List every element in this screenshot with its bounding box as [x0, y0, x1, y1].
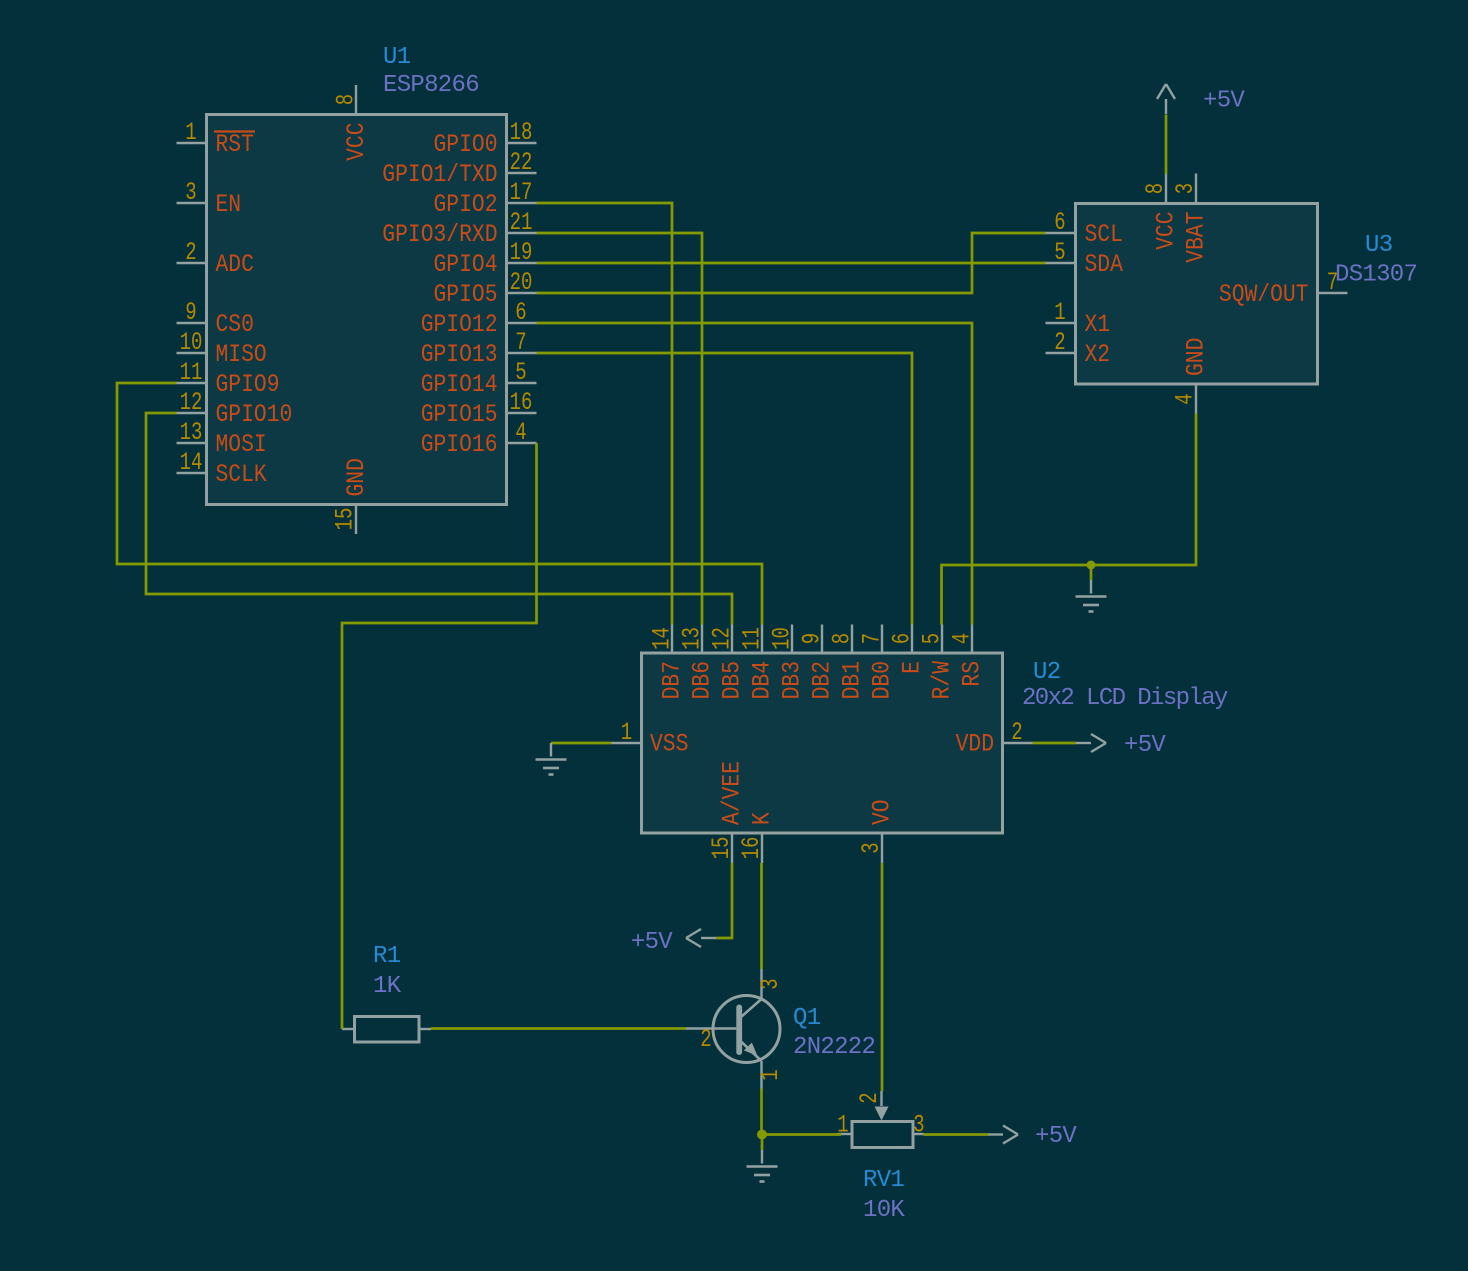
U1 pin 4 GPIO16	[421, 418, 537, 459]
svg-text:GPIO4: GPIO4	[434, 250, 498, 279]
+5V power symbol at U2 VDD	[1076, 734, 1106, 752]
svg-text:MISO: MISO	[216, 340, 267, 369]
U1 pin 22 GPIO1/TXD	[382, 148, 536, 189]
U1 pin 13 MOSI	[177, 418, 267, 459]
svg-text:GPIO14: GPIO14	[421, 370, 498, 399]
svg-text:9: 9	[798, 633, 827, 644]
U1 pin 3 EN	[177, 178, 242, 219]
U2 pin 10 DB3	[768, 625, 807, 700]
+5V power symbol at RV1 pin 3	[988, 1126, 1018, 1144]
wire R1 to Q1 base	[431, 1027, 686, 1030]
svg-text:6: 6	[1054, 208, 1065, 237]
svg-text:U1: U1	[383, 44, 411, 71]
U1 pin 19 GPIO4	[434, 238, 537, 279]
U1 pin 7 GPIO13	[421, 328, 537, 369]
wire Q1 emitter to junction	[760, 1089, 763, 1135]
svg-text:9: 9	[185, 298, 196, 327]
svg-text:1: 1	[185, 118, 196, 147]
wire junction to RV1 pin 1	[762, 1133, 841, 1136]
ground at U2 VSS	[536, 743, 567, 775]
wire VO to RV1 wiper	[881, 863, 884, 1091]
svg-text:12: 12	[180, 388, 203, 417]
svg-text:16: 16	[510, 388, 533, 417]
wire VDD to +5V	[1033, 742, 1077, 745]
wire U3 GND to R/W (ground net)	[942, 414, 1197, 625]
U2 pin 1 VSS	[612, 718, 689, 759]
svg-text:15: 15	[331, 508, 360, 531]
svg-text:X1: X1	[1085, 310, 1111, 339]
svg-text:R1: R1	[373, 943, 401, 970]
svg-text:8: 8	[1141, 183, 1170, 194]
svg-text:DB0: DB0	[868, 661, 897, 699]
svg-text:4: 4	[515, 418, 526, 447]
svg-text:1K: 1K	[373, 973, 402, 1000]
wire A/VEE to +5V	[716, 863, 732, 938]
U1 pin 1 RST	[177, 118, 256, 159]
U3 pin 6 SCL	[1046, 208, 1123, 249]
svg-text:1: 1	[621, 718, 632, 747]
svg-text:GPIO13: GPIO13	[421, 340, 498, 369]
svg-text:21: 21	[510, 208, 533, 237]
svg-text:17: 17	[510, 178, 533, 207]
wire GPIO5 to SCL	[537, 233, 1046, 293]
wire junction to ground	[761, 1135, 764, 1151]
svg-text:SCL: SCL	[1085, 220, 1123, 249]
U1 pin 16 GPIO15	[421, 388, 537, 429]
svg-text:4: 4	[1171, 393, 1200, 404]
svg-text:4: 4	[948, 633, 977, 644]
U1 pin 12 GPIO10	[177, 388, 293, 429]
svg-text:15: 15	[707, 837, 736, 860]
svg-text:8: 8	[332, 94, 361, 105]
U1 pin 20 GPIO5	[434, 268, 537, 309]
potentiometer RV1 body	[838, 1091, 924, 1148]
svg-text:14: 14	[648, 627, 677, 650]
svg-text:VO: VO	[868, 799, 897, 825]
svg-text:GPIO1/TXD: GPIO1/TXD	[382, 160, 497, 189]
svg-text:5: 5	[1054, 238, 1065, 267]
junction Q1 emitter / RV1 / ground	[757, 1130, 767, 1140]
U2 pin 16 K	[737, 812, 777, 863]
U2 pin 7 DB0	[858, 625, 897, 700]
svg-text:+5V: +5V	[1203, 88, 1245, 115]
svg-text:VSS: VSS	[650, 730, 688, 759]
U1 pin 14 SCLK	[177, 448, 267, 489]
svg-text:GPIO2: GPIO2	[434, 190, 498, 219]
+5V power symbol at U2 A/VEE	[686, 929, 716, 947]
U1 pin 15 GND	[331, 458, 372, 534]
svg-text:EN: EN	[216, 190, 242, 219]
svg-text:6: 6	[515, 298, 526, 327]
U1 pin 10 MISO	[177, 328, 267, 369]
IC U3 DS1307 body	[1076, 204, 1318, 385]
IC U2 20x2 LCD Display body	[642, 653, 1003, 833]
svg-text:13: 13	[180, 418, 203, 447]
svg-text:11: 11	[738, 627, 767, 650]
svg-text:SDA: SDA	[1085, 250, 1123, 279]
svg-text:19: 19	[510, 238, 533, 267]
transistor Q1 2N2222	[686, 969, 780, 1089]
svg-text:+5V: +5V	[1124, 732, 1166, 759]
svg-text:1: 1	[1054, 298, 1065, 327]
svg-text:DS1307: DS1307	[1335, 262, 1417, 289]
svg-text:12: 12	[708, 627, 737, 650]
svg-text:+5V: +5V	[1035, 1123, 1077, 1150]
wire ground junction stub	[1090, 565, 1093, 580]
svg-text:3: 3	[913, 1111, 924, 1140]
IC U1 ESP8266 body	[207, 115, 507, 505]
svg-text:VDD: VDD	[956, 730, 994, 759]
U2 pin 11 DB4	[738, 625, 777, 700]
svg-text:7: 7	[515, 328, 526, 357]
svg-text:3: 3	[185, 178, 196, 207]
svg-text:DB4: DB4	[748, 661, 777, 699]
U3 pin 7 SQW/OUT	[1219, 268, 1348, 309]
U3 pin 1 X1	[1046, 298, 1111, 339]
U2 pin 5 R/W	[918, 625, 957, 700]
svg-text:A/VEE: A/VEE	[718, 761, 747, 825]
svg-text:8: 8	[828, 633, 857, 644]
svg-text:X2: X2	[1085, 340, 1111, 369]
svg-text:GPIO9: GPIO9	[216, 370, 280, 399]
svg-text:2: 2	[1011, 718, 1022, 747]
svg-text:DB1: DB1	[838, 661, 867, 699]
svg-text:DB3: DB3	[778, 661, 807, 699]
wire GPIO3/RXD to DB6	[537, 233, 703, 625]
svg-text:6: 6	[888, 633, 917, 644]
svg-text:DB2: DB2	[808, 661, 837, 699]
svg-text:RST: RST	[216, 130, 254, 159]
svg-text:CS0: CS0	[216, 310, 254, 339]
U2 pin 9 DB2	[798, 625, 837, 700]
svg-text:RV1: RV1	[863, 1167, 904, 1194]
wire GPIO4 to SDA	[537, 262, 1046, 265]
svg-text:+5V: +5V	[631, 929, 673, 956]
svg-text:U3: U3	[1365, 232, 1392, 259]
svg-text:GPIO0: GPIO0	[434, 130, 498, 159]
+5V power symbol at U3 VCC	[1157, 84, 1175, 114]
wire GPIO2 to DB7	[537, 203, 673, 625]
svg-text:GND: GND	[342, 458, 371, 496]
svg-text:5: 5	[515, 358, 526, 387]
svg-text:DB7: DB7	[658, 661, 687, 699]
svg-text:5: 5	[918, 633, 947, 644]
svg-text:GPIO3/RXD: GPIO3/RXD	[382, 220, 497, 249]
U2 pin 15 A/VEE	[707, 761, 747, 863]
wire GPIO10 to DB5	[146, 413, 732, 625]
svg-text:11: 11	[180, 358, 203, 387]
svg-text:R/W: R/W	[928, 661, 957, 699]
U1 pin 17 GPIO2	[434, 178, 537, 219]
svg-text:3: 3	[857, 842, 886, 853]
svg-text:16: 16	[737, 837, 766, 860]
svg-text:18: 18	[510, 118, 533, 147]
svg-text:20x2 LCD Display: 20x2 LCD Display	[1022, 685, 1228, 712]
svg-text:2: 2	[185, 238, 196, 267]
U3 pin 2 X2	[1046, 328, 1111, 369]
wire RV1 pin 3 to +5V	[924, 1133, 989, 1136]
wire GPIO16 to R1	[342, 443, 537, 1029]
svg-text:GPIO5: GPIO5	[434, 280, 498, 309]
svg-text:MOSI: MOSI	[216, 430, 267, 459]
svg-text:SCLK: SCLK	[216, 460, 267, 489]
U3 pin 4 GND	[1171, 338, 1211, 414]
ground below Q1 emitter	[747, 1150, 778, 1182]
svg-text:3: 3	[756, 978, 785, 989]
svg-text:10K: 10K	[863, 1197, 905, 1224]
U2 pin 8 DB1	[828, 625, 867, 700]
svg-text:14: 14	[180, 448, 203, 477]
svg-text:10: 10	[180, 328, 203, 357]
svg-text:VBAT: VBAT	[1182, 212, 1211, 263]
U2 pin 6 E	[888, 625, 927, 674]
svg-text:K: K	[748, 812, 777, 825]
U3 pin 8 VCC	[1141, 174, 1181, 250]
svg-text:3: 3	[1171, 183, 1200, 194]
svg-text:20: 20	[510, 268, 533, 297]
svg-text:DB5: DB5	[718, 661, 747, 699]
U1 pin 9 CS0	[177, 298, 254, 339]
svg-text:GPIO12: GPIO12	[421, 310, 498, 339]
svg-text:VCC: VCC	[1152, 212, 1181, 250]
wire GPIO9 to DB4	[117, 383, 762, 625]
U3 pin 3 VBAT	[1171, 174, 1211, 263]
svg-text:Q1: Q1	[793, 1005, 821, 1032]
U2 pin 14 DB7	[648, 625, 687, 700]
svg-text:GPIO16: GPIO16	[421, 430, 498, 459]
svg-text:RS: RS	[958, 661, 987, 687]
svg-text:GPIO15: GPIO15	[421, 400, 498, 429]
svg-text:GPIO10: GPIO10	[216, 400, 293, 429]
svg-text:ESP8266: ESP8266	[383, 72, 479, 99]
svg-text:2: 2	[855, 1092, 884, 1103]
svg-text:10: 10	[768, 627, 797, 650]
svg-text:VCC: VCC	[342, 123, 371, 161]
U1 pin 11 GPIO9	[177, 358, 280, 399]
wire U3 VCC to +5V	[1165, 115, 1168, 175]
svg-text:2N2222: 2N2222	[793, 1034, 875, 1061]
U1 pin 6 GPIO12	[421, 298, 537, 339]
U1 pin 8 VCC	[332, 85, 372, 161]
svg-text:ADC: ADC	[216, 250, 254, 279]
svg-text:22: 22	[510, 148, 533, 177]
U2 pin 13 DB6	[678, 625, 717, 700]
svg-text:7: 7	[858, 633, 887, 644]
U2 pin 3 VO	[857, 799, 897, 863]
U2 pin 12 DB5	[708, 625, 747, 700]
wire GPIO13 to E	[537, 353, 913, 625]
svg-text:E: E	[898, 661, 927, 674]
resistor R1 body	[342, 1017, 431, 1043]
U2 pin 4 RS	[948, 625, 987, 687]
svg-text:DB6: DB6	[688, 661, 717, 699]
svg-text:2: 2	[700, 1025, 711, 1054]
svg-text:1: 1	[756, 1069, 785, 1080]
wire VSS to ground	[551, 742, 612, 745]
wire GPIO12 to RS	[537, 323, 973, 625]
svg-text:2: 2	[1054, 328, 1065, 357]
ground at ground net near U3	[1076, 580, 1107, 612]
U1 pin 2 ADC	[177, 238, 254, 279]
svg-text:U2: U2	[1033, 659, 1060, 686]
U3 pin 5 SDA	[1046, 238, 1123, 279]
svg-text:13: 13	[678, 627, 707, 650]
svg-text:7: 7	[1327, 268, 1338, 297]
U1 pin 18 GPIO0	[434, 118, 537, 159]
wire K to Q1 collector	[760, 863, 763, 969]
svg-text:SQW/OUT: SQW/OUT	[1219, 280, 1309, 309]
junction near U3 ground	[1087, 561, 1096, 570]
U1 pin 5 GPIO14	[421, 358, 537, 399]
svg-text:GND: GND	[1182, 338, 1211, 376]
U2 pin 2 VDD	[956, 718, 1033, 759]
U1 pin 21 GPIO3/RXD	[382, 208, 536, 249]
